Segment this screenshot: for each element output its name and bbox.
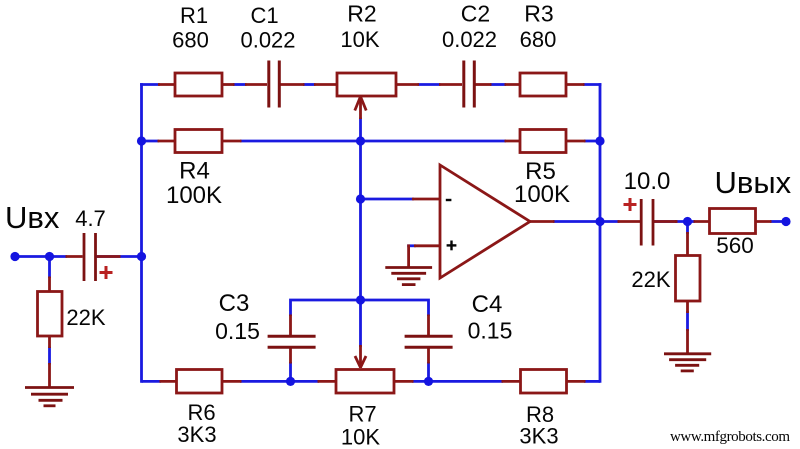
svg-text:C1: C1	[250, 3, 278, 28]
svg-text:4.7: 4.7	[75, 206, 106, 231]
svg-text:0.022: 0.022	[442, 27, 497, 52]
svg-text:0.15: 0.15	[215, 318, 260, 344]
svg-text:www.mfgrobots.com: www.mfgrobots.com	[670, 429, 790, 445]
svg-text:C4: C4	[472, 291, 503, 318]
svg-text:22K: 22K	[66, 305, 105, 330]
svg-text:Uвх: Uвх	[5, 200, 60, 235]
svg-text:100K: 100K	[514, 181, 570, 208]
svg-text:10.0: 10.0	[624, 168, 671, 195]
svg-text:R3: R3	[524, 1, 553, 27]
svg-text:0.15: 0.15	[468, 318, 513, 344]
svg-text:C3: C3	[219, 290, 250, 317]
svg-text:R7: R7	[348, 402, 376, 427]
svg-text:Uвых: Uвых	[715, 165, 792, 200]
svg-text:10K: 10K	[340, 27, 379, 52]
svg-text:R4: R4	[179, 158, 210, 185]
svg-text:22K: 22K	[631, 267, 670, 292]
svg-text:680: 680	[172, 28, 209, 53]
svg-text:3K3: 3K3	[177, 422, 216, 447]
svg-text:3K3: 3K3	[519, 424, 558, 449]
svg-text:R2: R2	[347, 1, 376, 27]
svg-text:0.022: 0.022	[240, 28, 295, 53]
svg-text:10K: 10K	[341, 425, 380, 449]
svg-text:560: 560	[716, 233, 754, 258]
svg-text:R1: R1	[180, 3, 208, 28]
svg-text:C2: C2	[461, 1, 490, 27]
svg-text:100K: 100K	[166, 182, 222, 209]
svg-text:680: 680	[520, 27, 557, 52]
